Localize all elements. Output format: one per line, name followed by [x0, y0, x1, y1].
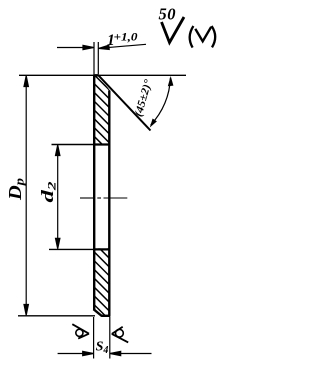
svg-text:50: 50	[159, 5, 177, 24]
wire: Dp top extension line / angle reference line	[19, 74, 186, 76]
dimension 1+1,0 left line with arrow	[57, 45, 94, 49]
bore top edge	[93, 143, 110, 145]
dimension d2 line	[56, 145, 60, 249]
disc section outline	[93, 75, 150, 317]
s4 dimension right arrow	[110, 351, 151, 355]
svg-text:+1,0: +1,0	[114, 30, 138, 44]
angle arc (45±2)°	[151, 78, 171, 125]
s4 dimension left arrow	[58, 351, 94, 355]
top chamfer + extension leader	[98, 75, 151, 131]
bottom chamfer	[94, 309, 102, 316]
parenthesis )	[212, 26, 216, 47]
wire: Dp bottom extension line	[18, 315, 95, 317]
surface finish symbol left (check with circle, pointing right)	[72, 324, 89, 338]
hatching bottom block	[60, 183, 180, 375]
left face	[93, 75, 95, 309]
small check mark	[195, 27, 211, 42]
roughness check mark	[162, 17, 185, 43]
hatching top block	[60, 23, 180, 231]
bore bottom edge	[93, 248, 110, 250]
bottom edge	[101, 315, 110, 317]
right face	[108, 91, 110, 317]
wire: d2 bottom extension line	[49, 248, 94, 250]
parenthesis (	[190, 26, 194, 48]
top tip edge	[93, 74, 98, 76]
extension lines for 1+1,0	[93, 42, 95, 74]
dimension 1+1,0 right line with arrow	[99, 44, 146, 49]
wire: d2 top extension line	[52, 144, 95, 146]
center line (axis, dash-dot)	[80, 197, 127, 199]
s4 extension lines	[93, 317, 95, 359]
surface finish symbol right (check with circle, pointing left)	[112, 327, 128, 343]
dimension Dp line	[24, 76, 28, 315]
